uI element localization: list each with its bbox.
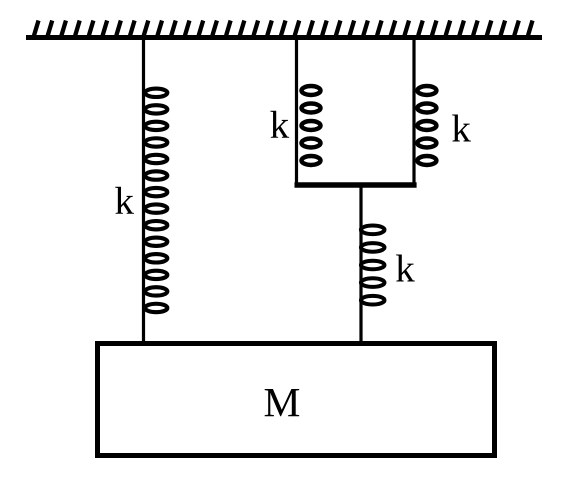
label k (spring k3) [452,114,471,141]
label k (spring k4) [396,254,415,281]
label k (left spring k1) [115,187,134,214]
wire: ceiling to left spring k1 and down to mass [142,40,145,341]
wire: bar to lower spring k4 and down to mass [359,185,362,341]
ceiling hatching [34,21,533,36]
spring k1 (left, long, 14 coils) [145,89,167,313]
spring k4 (lower middle, 5 coils) [361,226,385,305]
label M (mass) [265,389,299,416]
wire: ceiling to middle-right spring k3 and down to bar [412,40,415,185]
label k (spring k2) [270,111,289,138]
bar joining springs k2 and k3 [295,182,417,188]
mass M box [98,344,495,456]
ceiling line [26,35,542,40]
spring k2 (upper middle-left, 5 coils) [302,86,321,165]
wire: ceiling to middle-left spring k2 and down to bar [295,40,298,185]
spring k3 (upper middle-right, 5 coils) [417,86,436,165]
